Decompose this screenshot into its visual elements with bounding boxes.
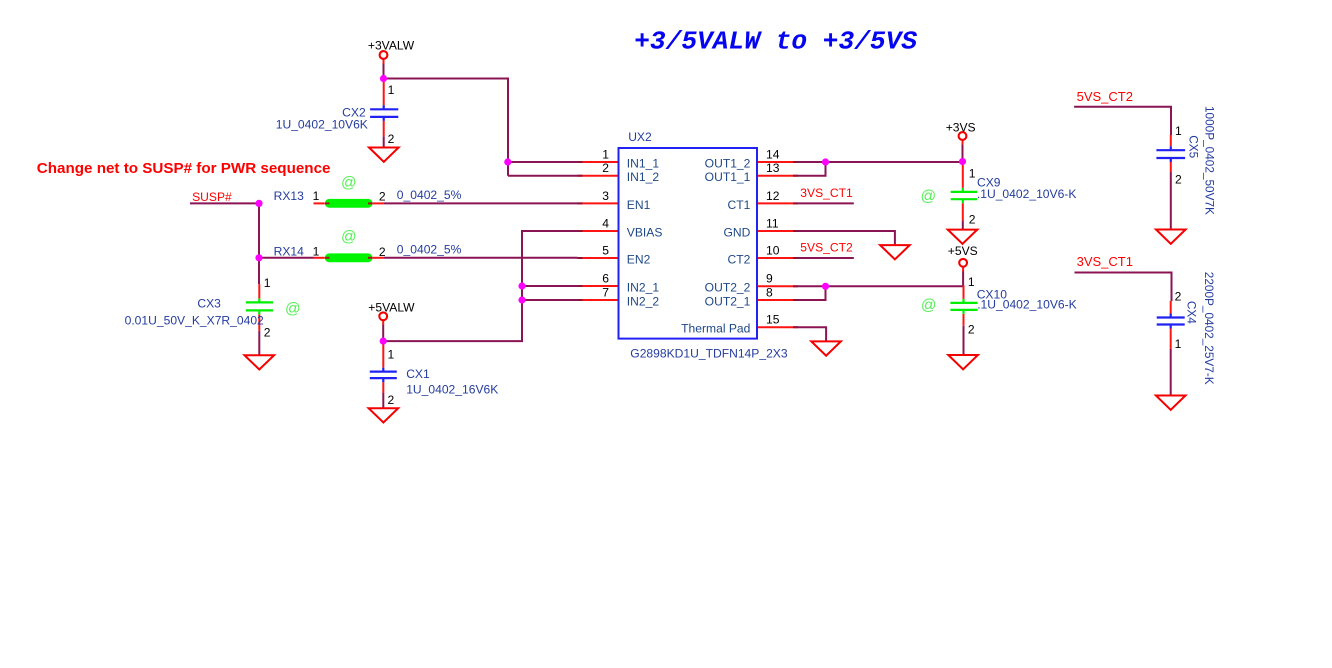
svg-text:+3VALW: +3VALW xyxy=(368,39,415,53)
svg-text:EN1: EN1 xyxy=(627,198,651,212)
svg-text:OUT1_1: OUT1_1 xyxy=(705,170,751,184)
svg-text:3VS_CT1: 3VS_CT1 xyxy=(800,186,853,200)
svg-text:1U_0402_16V6K: 1U_0402_16V6K xyxy=(406,383,498,397)
svg-text:+5VALW: +5VALW xyxy=(368,300,415,314)
svg-text:1: 1 xyxy=(1175,337,1182,351)
svg-text:EN2: EN2 xyxy=(627,253,651,267)
svg-text:IN2_1: IN2_1 xyxy=(627,281,660,295)
svg-text:+5VS: +5VS xyxy=(948,244,978,258)
svg-text:2200P_0402_25V7-K: 2200P_0402_25V7-K xyxy=(1202,272,1216,385)
svg-text:CX4: CX4 xyxy=(1185,301,1199,324)
svg-text:4: 4 xyxy=(602,216,609,230)
svg-text:.1U_0402_10V6-K: .1U_0402_10V6-K xyxy=(977,297,1077,311)
svg-text:2: 2 xyxy=(1175,290,1182,304)
svg-text:5: 5 xyxy=(602,243,609,257)
svg-text:@: @ xyxy=(341,174,357,191)
svg-text:CT1: CT1 xyxy=(728,198,751,212)
svg-text:9: 9 xyxy=(766,271,773,285)
svg-text:@: @ xyxy=(285,300,301,317)
svg-text:VBIAS: VBIAS xyxy=(627,226,663,240)
svg-text:IN2_2: IN2_2 xyxy=(627,295,660,309)
svg-text:2: 2 xyxy=(1175,173,1182,187)
svg-text:5VS_CT2: 5VS_CT2 xyxy=(800,240,853,254)
svg-text:2: 2 xyxy=(388,132,395,146)
svg-text:0_0402_5%: 0_0402_5% xyxy=(397,242,462,256)
svg-text:1: 1 xyxy=(1175,124,1182,138)
svg-text:G2898KD1U_TDFN14P_2X3: G2898KD1U_TDFN14P_2X3 xyxy=(630,347,788,361)
svg-text:CX3: CX3 xyxy=(197,297,221,311)
svg-text:Change net to SUSP# for PWR se: Change net to SUSP# for PWR sequence xyxy=(37,160,331,177)
svg-text:2: 2 xyxy=(379,245,386,259)
svg-text:@: @ xyxy=(341,229,357,246)
svg-text:CT2: CT2 xyxy=(728,253,751,267)
svg-text:14: 14 xyxy=(766,147,780,161)
svg-text:1000P_0402_50V7K: 1000P_0402_50V7K xyxy=(1202,106,1216,215)
svg-text:@: @ xyxy=(921,188,937,205)
svg-text:1: 1 xyxy=(969,166,976,180)
svg-text:@: @ xyxy=(921,297,937,314)
svg-text:OUT2_2: OUT2_2 xyxy=(705,281,751,295)
svg-text:1U_0402_10V6K: 1U_0402_10V6K xyxy=(276,118,368,132)
svg-text:2: 2 xyxy=(968,322,975,336)
svg-text:2: 2 xyxy=(969,213,976,227)
svg-text:12: 12 xyxy=(766,189,780,203)
svg-text:2: 2 xyxy=(602,161,609,175)
svg-text:2: 2 xyxy=(388,393,395,407)
svg-text:1: 1 xyxy=(388,83,395,97)
svg-text:OUT2_1: OUT2_1 xyxy=(705,295,751,309)
svg-text:SUSP#: SUSP# xyxy=(192,190,232,204)
svg-text:7: 7 xyxy=(602,285,609,299)
svg-text:1: 1 xyxy=(388,347,395,361)
svg-text:1: 1 xyxy=(313,189,320,203)
svg-text:1: 1 xyxy=(313,245,320,259)
svg-text:RX14: RX14 xyxy=(274,245,305,259)
svg-text:1: 1 xyxy=(264,276,271,290)
svg-text:13: 13 xyxy=(766,161,780,175)
svg-text:2: 2 xyxy=(264,325,271,339)
svg-text:IN1_1: IN1_1 xyxy=(627,157,660,171)
svg-text:8: 8 xyxy=(766,285,773,299)
svg-text:.1U_0402_10V6-K: .1U_0402_10V6-K xyxy=(977,187,1077,201)
svg-text:5VS_CT2: 5VS_CT2 xyxy=(1077,89,1133,104)
svg-text:10: 10 xyxy=(766,243,780,257)
svg-text:3VS_CT1: 3VS_CT1 xyxy=(1077,254,1133,269)
svg-text:0.01U_50V_K_X7R_0402: 0.01U_50V_K_X7R_0402 xyxy=(125,313,264,327)
svg-text:3: 3 xyxy=(602,189,609,203)
svg-text:UX2: UX2 xyxy=(628,130,652,144)
svg-text:IN1_2: IN1_2 xyxy=(627,170,660,184)
svg-text:OUT1_2: OUT1_2 xyxy=(705,157,751,171)
svg-text:15: 15 xyxy=(766,313,780,327)
svg-text:GND: GND xyxy=(724,226,751,240)
svg-text:6: 6 xyxy=(602,271,609,285)
svg-text:0_0402_5%: 0_0402_5% xyxy=(397,188,462,202)
svg-text:+3/5VALW to +3/5VS: +3/5VALW to +3/5VS xyxy=(634,26,917,56)
svg-text:1: 1 xyxy=(602,147,609,161)
svg-text:2: 2 xyxy=(379,189,386,203)
svg-text:CX1: CX1 xyxy=(406,367,430,381)
svg-text:RX13: RX13 xyxy=(274,189,305,203)
svg-text:1: 1 xyxy=(968,275,975,289)
svg-text:11: 11 xyxy=(766,216,779,230)
svg-text:CX5: CX5 xyxy=(1186,135,1200,158)
svg-text:+3VS: +3VS xyxy=(946,121,976,135)
svg-text:Thermal Pad: Thermal Pad xyxy=(681,322,750,336)
